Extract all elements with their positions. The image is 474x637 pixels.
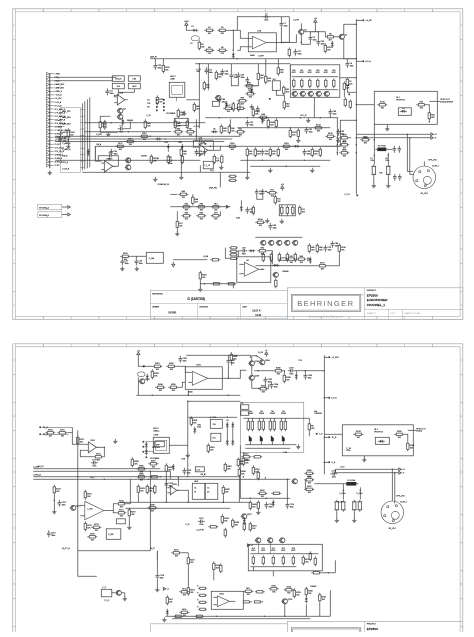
text [147, 100, 150, 102]
transistor Q222 [115, 590, 121, 595]
capacitor C16 [203, 149, 207, 156]
wire [227, 355, 229, 358]
svg-text:R34: R34 [431, 115, 434, 117]
cap box C1L [211, 433, 221, 441]
capacitor C37 [294, 49, 302, 56]
resistor R255 [213, 561, 221, 571]
svg-text:R54: R54 [260, 75, 263, 77]
wire [276, 90, 284, 100]
svg-text:10 -15_B: 10 -15_B [55, 105, 63, 107]
svg-text:C203: C203 [289, 368, 294, 370]
wire [277, 59, 279, 66]
svg-text:C27: C27 [125, 261, 128, 263]
capacitor C17 [107, 153, 114, 161]
diode D8 [272, 264, 279, 267]
wire [113, 511, 116, 513]
svg-text:Q2: Q2 [345, 34, 348, 36]
wire [118, 89, 134, 93]
text [193, 126, 200, 128]
resistor R273 body [282, 555, 284, 565]
resistor R93 [229, 257, 238, 259]
diode D10 [293, 145, 300, 148]
wire [251, 366, 253, 375]
svg-text:B_SP_2: B_SP_2 [400, 501, 407, 503]
wire rail [188, 416, 237, 418]
wire rail [205, 117, 290, 119]
resistor R75 [286, 205, 288, 215]
resistor R131 [275, 118, 277, 128]
resistor R49 [220, 124, 227, 134]
transistor Q224 [255, 538, 261, 543]
wire [80, 109, 84, 111]
wire [243, 519, 245, 521]
wire [409, 138, 411, 175]
wire [267, 384, 269, 389]
ground [179, 175, 183, 180]
node [264, 616, 266, 618]
resistor R25 body [333, 78, 335, 88]
label R270 [251, 548, 255, 552]
node [256, 355, 257, 357]
grid bottom rail wire [292, 89, 339, 91]
resistor R125 [162, 63, 170, 73]
svg-text:+15: +15 [137, 350, 140, 352]
net label [150, 56, 157, 59]
svg-text:C_100n: C_100n [356, 493, 362, 495]
svg-text:100n: 100n [333, 114, 337, 116]
svg-text:CHANNEL_1: CHANNEL_1 [367, 303, 386, 307]
svg-text:0R22: 0R22 [251, 550, 255, 552]
resistor R61 [283, 85, 290, 95]
wire [305, 604, 307, 616]
text [62, 548, 70, 550]
svg-text:R112: R112 [128, 138, 132, 140]
capacitor C36 [317, 39, 325, 46]
svg-text:P_DRV: P_DRV [96, 134, 102, 136]
node [188, 502, 190, 504]
resistor R270 [352, 500, 357, 512]
svg-text:R305: R305 [139, 466, 144, 468]
wire [227, 29, 237, 31]
svg-text:R297: R297 [252, 526, 257, 528]
pad [143, 446, 145, 448]
transistor Q35 [215, 95, 221, 100]
svg-text:Q223: Q223 [288, 599, 293, 601]
op-amp U2A [114, 92, 128, 105]
resistor R290 [238, 467, 246, 477]
resistor R137 [317, 263, 327, 271]
svg-text:R202: R202 [169, 363, 174, 365]
resistor R64 [192, 195, 199, 205]
page frame inner border [16, 12, 461, 317]
svg-text:P1: P1 [190, 43, 192, 45]
ground [106, 132, 110, 137]
svg-text:R206: R206 [276, 368, 281, 370]
svg-text:C38: C38 [158, 65, 161, 67]
wire [343, 91, 345, 97]
transistor Q201 [139, 379, 150, 384]
resistor R6 [325, 34, 335, 42]
wire [227, 365, 229, 379]
svg-text:R97: R97 [290, 256, 293, 258]
resistor R90 [229, 247, 238, 249]
svg-text:EP2500: EP2500 [367, 293, 378, 297]
svg-text:C_1F: C_1F [185, 524, 189, 526]
capacitor C33 [261, 149, 269, 156]
resistor R118 [277, 147, 279, 157]
wire [387, 176, 389, 184]
box lower [174, 118, 188, 125]
diode D214 [193, 427, 196, 434]
resistor R146 [150, 154, 159, 164]
pad [146, 456, 148, 458]
pad [356, 195, 358, 197]
svg-text:R120: R120 [314, 151, 319, 153]
text POT/GANG [150, 457, 160, 460]
svg-text:C44: C44 [335, 243, 338, 245]
capacitor C203 [288, 368, 295, 376]
resistor R239 [293, 588, 301, 598]
wire [240, 200, 242, 205]
wire [391, 469, 393, 501]
resistor R130 [267, 118, 275, 128]
wire [373, 124, 375, 137]
ground [335, 518, 339, 523]
wire [239, 479, 241, 498]
transistor Q24 [292, 240, 298, 245]
node [150, 136, 152, 138]
capacitor C21 [246, 77, 250, 84]
node [223, 502, 225, 504]
wire [349, 137, 351, 139]
diode D216 [231, 422, 234, 429]
svg-text:REVISIONS: REVISIONS [152, 293, 163, 295]
svg-text:27 NC: 27 NC [55, 165, 61, 167]
svg-text:100n: 100n [92, 466, 96, 468]
svg-text:R60: R60 [262, 114, 265, 116]
svg-text:C/2B: C/2B [183, 358, 188, 360]
svg-text:R204: R204 [158, 384, 163, 386]
capacitor C210 [330, 471, 337, 479]
wire [295, 371, 297, 373]
wire [256, 356, 262, 360]
wire [283, 371, 285, 374]
capacitor C23 [255, 189, 263, 196]
svg-text:R/1L: R/1L [147, 123, 151, 125]
resistor R112 [125, 138, 135, 146]
svg-text:Q1: Q1 [304, 29, 307, 31]
resistor R62 [283, 100, 290, 110]
op-amp U205 [167, 484, 180, 495]
resistor R207 [258, 386, 268, 394]
svg-text:SPK_OUT: SPK_OUT [396, 495, 406, 497]
svg-text:R_10: R_10 [338, 501, 342, 503]
svg-text:Q3: Q3 [123, 108, 126, 110]
node [227, 417, 229, 419]
resistor R148 [181, 154, 183, 164]
resistor R138 [156, 95, 164, 105]
pad [163, 103, 165, 105]
wire [347, 87, 356, 92]
node [266, 498, 268, 500]
svg-text:R/2B: R/2B [342, 142, 347, 144]
svg-text:100n: 100n [63, 141, 67, 143]
text [344, 194, 350, 196]
resistor R66 [196, 204, 206, 212]
resistor R65 [181, 204, 191, 212]
wire [80, 122, 84, 124]
svg-text:R/LB: R/LB [342, 135, 347, 137]
svg-text:C221: C221 [199, 518, 204, 520]
svg-text:R59: R59 [241, 98, 244, 100]
resistor R268 [334, 500, 339, 512]
resistor R282 [165, 463, 173, 473]
wire [359, 487, 361, 499]
text [203, 256, 209, 258]
text [147, 107, 150, 109]
resistor R55 [265, 74, 272, 84]
svg-text:0R22: 0R22 [324, 72, 328, 74]
svg-text:R_NB: R_NB [203, 256, 209, 258]
svg-text:0R22: 0R22 [292, 72, 296, 74]
svg-text:(+1,5): (+1,5) [332, 398, 337, 400]
svg-text:R48: R48 [183, 151, 186, 153]
svg-text:B_SP_1: B_SP_1 [432, 165, 439, 167]
node [356, 152, 358, 154]
op-amp U204 box [211, 591, 243, 609]
wire [80, 134, 84, 136]
diode D5 [211, 129, 218, 134]
wire rail [290, 117, 338, 119]
svg-text:C26: C26 [242, 248, 245, 250]
resistor R5 [217, 47, 227, 55]
svg-text:R102: R102 [202, 275, 207, 277]
resistor R102 [199, 271, 207, 281]
terminal arrow [399, 471, 405, 474]
diode D11 [87, 149, 90, 156]
wire [121, 592, 125, 594]
svg-text:RL2B: RL2B [356, 431, 361, 433]
svg-text:R306: R306 [245, 460, 250, 462]
svg-text:R222: R222 [190, 560, 195, 562]
svg-text:R288: R288 [225, 489, 230, 491]
diode D1 [191, 26, 198, 32]
wire [67, 138, 69, 145]
ground [52, 509, 56, 514]
wire rail [84, 131, 171, 133]
svg-text:1/3058: 1/3058 [270, 413, 275, 415]
resistor R217 [116, 510, 126, 518]
svg-text:0R22: 0R22 [300, 72, 304, 74]
feedback diode D7 [248, 249, 255, 252]
svg-text:R/L1: R/L1 [246, 588, 250, 590]
svg-text:U204: U204 [219, 594, 223, 596]
transistor Q21 [268, 240, 274, 245]
wire [56, 119, 60, 121]
resistor R215 [84, 490, 92, 500]
terminal arrow [68, 206, 71, 209]
wire [387, 153, 389, 165]
wire [232, 284, 234, 289]
text [385, 158, 387, 160]
wire [356, 19, 362, 21]
svg-text:100n: 100n [222, 102, 226, 104]
wire [187, 553, 189, 556]
svg-text:C2: C2 [265, 14, 267, 16]
diode D18 [240, 205, 243, 212]
svg-text:100n: 100n [274, 387, 278, 389]
box [116, 519, 125, 524]
node [247, 117, 249, 119]
svg-text:R85: R85 [311, 247, 314, 249]
node [196, 136, 198, 138]
pad +V_DR [362, 19, 372, 22]
grid top rail wire [250, 553, 318, 555]
svg-text:R/L4: R/L4 [182, 609, 186, 611]
wire [54, 77, 113, 81]
svg-text:FB_2: FB_2 [90, 477, 94, 479]
wire [319, 603, 321, 617]
wire [177, 490, 189, 502]
wire [113, 156, 119, 167]
node [356, 120, 358, 122]
svg-text:0R22: 0R22 [291, 550, 295, 552]
resistor R60 [258, 114, 268, 122]
ground [256, 510, 260, 515]
svg-text:R/L: R/L [311, 426, 314, 428]
frame zone ticks [13, 344, 463, 627]
text [196, 529, 204, 531]
pad [205, 143, 207, 145]
svg-text:PRT_B: PRT_B [62, 162, 68, 164]
wire [80, 154, 84, 156]
svg-text:14:41: 14:41 [255, 314, 262, 317]
svg-text:R122: R122 [118, 143, 123, 145]
wire rail [362, 137, 430, 139]
resistor R53 [254, 147, 261, 157]
capacitor C211 [91, 460, 98, 468]
capacitor C30 [59, 136, 67, 143]
label R25 [332, 70, 336, 74]
text PROTECT [396, 99, 406, 101]
capacitor C35 [110, 149, 118, 156]
frame zone numbers [13, 10, 462, 319]
wire [80, 141, 84, 143]
svg-text:100n: 100n [289, 374, 293, 376]
node [337, 152, 339, 154]
resistor R261 [308, 422, 315, 432]
svg-text:R140: R140 [180, 112, 185, 114]
svg-text:R210: R210 [48, 430, 53, 432]
text [379, 172, 382, 174]
ground [175, 231, 179, 236]
svg-text:R132: R132 [292, 132, 297, 134]
wire rail [120, 501, 250, 503]
diode D203 [305, 596, 308, 603]
feedback capacitor C26 [240, 248, 247, 256]
diode D212 [172, 464, 175, 471]
resistor R99 [275, 278, 277, 288]
ground [386, 183, 390, 188]
text [258, 352, 263, 354]
svg-text:1N/PRDR: 1N/PRDR [314, 413, 322, 415]
wire [280, 17, 282, 21]
svg-text:SPK1 OUT: SPK1 OUT [440, 99, 450, 101]
wire rail [237, 127, 330, 129]
svg-text:Q227: Q227 [247, 514, 252, 516]
bias network box [290, 65, 340, 98]
capacitor C4 [346, 61, 354, 68]
wire bus [77, 430, 79, 560]
node [388, 155, 390, 157]
label R20 [292, 70, 296, 74]
terminal arrow [163, 587, 169, 590]
wire [335, 253, 339, 265]
net label [210, 170, 214, 172]
pad TP2 [348, 94, 350, 96]
wire [98, 156, 107, 161]
svg-text:R203: R203 [154, 373, 159, 375]
capacitor C47 [246, 207, 254, 214]
svg-text:4148: 4148 [197, 427, 201, 429]
wire [60, 132, 68, 136]
svg-text:R257: R257 [244, 454, 249, 456]
svg-text:Q221: Q221 [76, 505, 81, 507]
svg-text:PROTECT: PROTECT [374, 431, 384, 433]
wire [254, 370, 273, 372]
wire [175, 97, 177, 101]
capacitor C24 [261, 189, 265, 196]
svg-text:CN_OUT: CN_OUT [420, 193, 429, 195]
resistor R272 body [272, 555, 274, 565]
wire [310, 32, 325, 37]
svg-text:R53: R53 [257, 151, 260, 153]
svg-text:TP_2L: TP_2L [104, 600, 109, 602]
text INPUT GAIN [170, 76, 176, 81]
resistor R206 [273, 368, 283, 376]
svg-text:100n: 100n [110, 93, 114, 95]
svg-text:R237: R237 [272, 586, 277, 588]
node [290, 127, 292, 129]
svg-text:4560: 4560 [188, 391, 192, 393]
wire [324, 436, 328, 438]
node [343, 490, 345, 492]
svg-text:R64: R64 [195, 199, 198, 201]
wire [71, 427, 73, 433]
resistor R134 [313, 125, 323, 133]
wire [176, 366, 188, 372]
svg-text:R136: R136 [341, 247, 346, 249]
svg-text:C37: C37 [298, 51, 301, 53]
svg-text:FB_1: FB_1 [210, 170, 214, 172]
ground [385, 126, 389, 131]
transistor Q22 [276, 240, 282, 245]
capacitor text [346, 448, 351, 452]
grid bottom rail wire [245, 447, 290, 449]
svg-text:D5: D5 [213, 129, 215, 131]
resistor R142 [238, 102, 240, 112]
ground [135, 266, 139, 271]
svg-text:C32: C32 [169, 157, 172, 159]
wire [192, 194, 194, 196]
wire [209, 146, 221, 150]
resistor R292 [257, 470, 259, 480]
capacitor C34 [303, 149, 311, 156]
svg-text:100n: 100n [290, 507, 294, 509]
capacitor C44 [331, 241, 339, 248]
op-amp U203 [80, 501, 110, 520]
node [148, 479, 150, 481]
